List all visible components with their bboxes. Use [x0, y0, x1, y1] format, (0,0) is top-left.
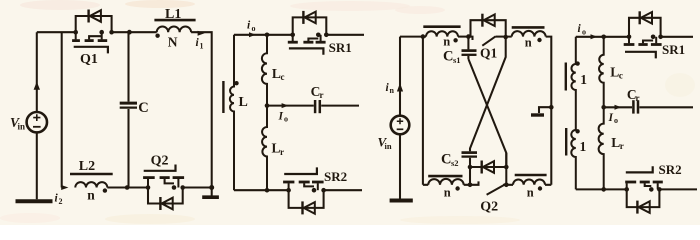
- winding n (bottom-left): [428, 179, 464, 185]
- node Cs2 bottom junction: [468, 165, 473, 170]
- svg-text:o: o: [284, 115, 288, 124]
- top wire with io arrow: [576, 36, 629, 38]
- winding 1 (lower) on rail: [571, 130, 576, 189]
- node Q1 right: [503, 35, 508, 40]
- wire second rail down to L2: [61, 32, 63, 187]
- capacitor Cs1 branch: [467, 37, 469, 50]
- svg-text:r: r: [636, 93, 640, 103]
- body diode of SR2 (right): [627, 189, 660, 207]
- wire L1 to right rail corner: [191, 32, 212, 187]
- phase dot (top-left winding): [453, 38, 457, 42]
- cross wire Q1-right to Cs2: [470, 37, 506, 151]
- rectifier SR1 (right circuit): [624, 11, 663, 58]
- node dots at SR1: [290, 33, 295, 38]
- svg-text:C: C: [138, 100, 148, 116]
- node Q2 right: [504, 183, 509, 188]
- wire SR1 to right edge: [661, 36, 693, 38]
- SR1 MOSFET structure: [292, 35, 294, 41]
- transformer core bar (left): [222, 81, 224, 113]
- wire SR2 to output terminal: [324, 189, 362, 191]
- wire Q1 node to winding and corner: [506, 37, 552, 185]
- transistor Q1 (MOSFET, diode above): [72, 10, 114, 54]
- svg-text:N: N: [168, 34, 178, 49]
- capacitor Cs2: [462, 151, 478, 154]
- node Q2 diode right: [504, 165, 509, 170]
- core bar (right transformer, lower): [565, 128, 567, 156]
- body diode of SR1: [293, 17, 327, 34]
- phase dot (bottom-right winding): [538, 186, 542, 190]
- phase dot of L2: [103, 188, 107, 192]
- wire SR2 to right edge: [659, 188, 697, 190]
- svg-text:n: n: [444, 186, 451, 200]
- node Cs1 top: [466, 34, 471, 39]
- node Lr bottom: [265, 188, 270, 193]
- svg-text:1: 1: [580, 139, 587, 154]
- rectifier SR1 (MOSFET, diode above): [288, 11, 329, 55]
- current arrow Io (right circuit): [615, 105, 622, 110]
- svg-text:r: r: [320, 90, 324, 100]
- wire mid junction to Cr: [267, 105, 314, 107]
- svg-text:2: 2: [59, 197, 63, 206]
- L1 core bar: [154, 19, 195, 22]
- rectifier SR2 (right circuit): [624, 166, 662, 213]
- winding n (bottom-right): [513, 179, 545, 184]
- svg-text:1: 1: [580, 72, 587, 87]
- ground tap on right rail: [549, 105, 554, 110]
- inductor Lc branch: [262, 35, 267, 106]
- wire Q2 to winding to corner: [506, 184, 551, 186]
- svg-text:C: C: [443, 49, 453, 65]
- body diode of Q1 (right): [471, 20, 506, 37]
- svg-text:n: n: [525, 36, 532, 50]
- svg-text:s1: s1: [453, 55, 461, 65]
- svg-text:1: 1: [200, 42, 204, 51]
- svg-text:SR2: SR2: [659, 162, 682, 177]
- wire corner to winding: [423, 184, 470, 186]
- wire Cr to output terminal: [321, 105, 359, 107]
- wire Vin top to top rail: [36, 32, 38, 112]
- inductor Lr branch: [262, 106, 267, 191]
- switch contact + lever Q2: [470, 181, 479, 184]
- capacitor Cr: [314, 100, 317, 113]
- ground bar under Vin: [16, 199, 53, 203]
- core bar (top-left winding): [423, 25, 460, 28]
- SR2 (right) MOSFET structure: [626, 183, 628, 189]
- svg-text:n: n: [443, 35, 450, 49]
- node mid junction (right): [601, 105, 606, 110]
- wire Cr to right edge: [639, 106, 693, 108]
- wire SR1 to output terminal: [326, 34, 364, 36]
- node dots at SR2 (right): [624, 187, 629, 192]
- svg-text:r: r: [280, 147, 284, 157]
- node dots at SR1 (right): [627, 35, 632, 40]
- cross wire Cs1 to Q2-right: [468, 59, 506, 167]
- winding n (top-right): [512, 31, 546, 37]
- wire top rail Vin to Q1: [37, 31, 76, 33]
- phase dot (lower 1): [575, 129, 579, 133]
- svg-text:SR1: SR1: [329, 40, 352, 55]
- ground (left primary): [211, 188, 213, 196]
- source Vin (left circuit): [27, 112, 47, 132]
- node L2/C junction: [125, 185, 130, 190]
- current arrow i1 (right): [198, 31, 205, 36]
- transistor Q2 (MOSFET, diode below): [143, 165, 185, 211]
- winding L on secondary rail: [230, 35, 234, 190]
- inductor Lc branch (right): [599, 37, 604, 108]
- svg-text:Q1: Q1: [480, 45, 498, 60]
- wire mid junction to Cr (right): [604, 106, 632, 108]
- svg-text:C: C: [441, 152, 451, 168]
- core bar (right transformer, upper): [565, 63, 567, 91]
- svg-text:I: I: [608, 112, 614, 124]
- capacitor C on mid rail: [127, 32, 129, 101]
- phase dot (top-right winding): [537, 38, 541, 42]
- ground bar under Vin (right): [390, 199, 413, 203]
- svg-text:Q1: Q1: [80, 52, 98, 67]
- diode legs to bottom wire: [505, 153, 507, 185]
- svg-text:in: in: [385, 141, 392, 151]
- SR2 MOSFET structure: [288, 183, 290, 190]
- svg-text:I: I: [278, 111, 284, 123]
- inductor L1 winding: [157, 26, 191, 32]
- winding 1 (upper) on rail: [571, 37, 575, 130]
- current arrow iin (up) on Vin rail: [34, 82, 40, 90]
- current arrow io (right): [249, 32, 256, 37]
- wire Q2 to right rail: [183, 186, 212, 188]
- winding n (top-left): [426, 31, 458, 36]
- switch contact + lever Q1: [468, 37, 472, 40]
- phase dot (upper 1): [575, 61, 579, 65]
- phase dot of L: [234, 81, 238, 85]
- core bar (bottom-right winding): [515, 174, 547, 177]
- capacitor Cr (right): [632, 100, 635, 113]
- bottom wire to SR2: [234, 189, 289, 191]
- phase dot (bottom-left winding): [455, 186, 459, 190]
- svg-text:s2: s2: [451, 158, 459, 168]
- current arrow i2 (right): [61, 185, 68, 190]
- svg-text:n: n: [87, 187, 95, 202]
- Q1 MOSFET structure: [75, 32, 77, 39]
- node Lr bottom (right): [601, 187, 606, 192]
- svg-text:o: o: [252, 24, 256, 33]
- svg-text:SR2: SR2: [324, 169, 347, 184]
- svg-text:Q2: Q2: [480, 200, 498, 215]
- svg-text:o: o: [614, 116, 618, 125]
- body diode of Q1: [76, 16, 112, 32]
- node Lc top (right): [601, 35, 606, 40]
- svg-text:c: c: [281, 72, 285, 82]
- svg-text:n: n: [527, 186, 534, 200]
- svg-text:o: o: [582, 28, 586, 37]
- body diode of Q2 (right): [470, 166, 506, 168]
- svg-text:in: in: [18, 122, 26, 132]
- rail to bottom winding row: [422, 37, 424, 185]
- svg-text:L2: L2: [79, 159, 95, 174]
- switch Q1 with body diode: [468, 14, 508, 46]
- bottom wire to SR2 (right): [576, 188, 627, 190]
- current arrow Io (right): [282, 103, 289, 108]
- node C-rail top: [127, 30, 132, 35]
- top rail to winding n (top-left): [400, 36, 426, 38]
- core bar (bottom-left winding): [428, 175, 462, 178]
- switch Q2 with body diode: [470, 153, 509, 195]
- current arrow io (right, right circuit): [591, 34, 598, 39]
- inductor Lr branch (right): [599, 107, 604, 189]
- node ground junction: [209, 185, 214, 190]
- body diode of Q2: [148, 188, 183, 204]
- svg-text:Q2: Q2: [151, 153, 169, 168]
- svg-text:L1: L1: [165, 7, 181, 22]
- core bar (top-right winding): [512, 26, 545, 29]
- svg-text:SR1: SR1: [662, 42, 685, 57]
- wire L2 node to Q2: [107, 186, 148, 188]
- node Lc/Lr mid junction: [265, 103, 270, 108]
- wire Vin bottom to ground: [399, 134, 401, 198]
- svg-text:c: c: [619, 71, 623, 81]
- SR1 (right) MOSFET structure: [628, 37, 630, 44]
- node top of left rail pair: [421, 34, 426, 39]
- body diode of SR1 (right): [629, 18, 661, 37]
- wire Vin bottom to ground: [36, 132, 38, 199]
- wire winding to Cs1 node: [458, 36, 471, 38]
- Q2 MOSFET structure: [147, 179, 149, 188]
- node dots at SR2: [286, 188, 291, 193]
- wire Q1 to C-rail node: [112, 31, 157, 33]
- top wire with io arrow: [234, 34, 293, 36]
- rectifier SR2 (MOSFET, diode below): [283, 167, 326, 214]
- svg-text:L: L: [239, 95, 248, 110]
- L2 core bar: [70, 173, 113, 176]
- body diode of SR2: [289, 190, 324, 208]
- svg-text:n: n: [390, 86, 395, 95]
- source Vin (right circuit): [391, 116, 410, 135]
- current arrow in (up): [397, 83, 403, 92]
- node Q2 left: [468, 183, 473, 188]
- svg-text:r: r: [620, 141, 624, 151]
- node dots at Q2: [146, 185, 151, 190]
- node Lc top: [265, 33, 270, 38]
- node dots at Q1: [73, 30, 78, 35]
- inductor L2 winding: [75, 182, 107, 187]
- phase dot of L1: [155, 34, 159, 38]
- wire Vin top to top rail: [399, 37, 401, 116]
